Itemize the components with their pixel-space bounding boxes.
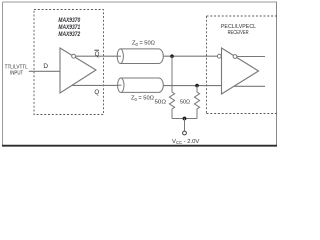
inversion bubble on driver complementary output <box>72 54 76 58</box>
wire: TTL input to driver D pin <box>29 70 60 72</box>
wire: driver Qbar output to top coax <box>76 55 118 57</box>
svg-text:Z0 = 50Ω: Z0 = 50Ω <box>131 96 154 102</box>
svg-text:D: D <box>43 63 48 70</box>
svg-text:Q: Q <box>95 51 100 58</box>
coax cable W1 body (top) <box>120 49 163 64</box>
svg-text:RECEIVER: RECEIVER <box>228 30 249 36</box>
svg-text:MAX9371: MAX9371 <box>58 24 80 31</box>
resistor R2 50ohm (terminates Q line) <box>194 86 199 119</box>
wire: node down to VCC-2.0V terminal <box>184 119 186 132</box>
receiver dashed box <box>207 16 278 114</box>
svg-text:50Ω: 50Ω <box>180 100 191 106</box>
wire: receiver complementary output <box>237 56 265 58</box>
coax cable W2 body (bottom) <box>121 78 164 92</box>
inversion bubble on receiver inverting input <box>217 54 221 58</box>
junction node on Qbar line <box>170 54 174 58</box>
resistor R1 50ohm (terminates Qbar line) <box>169 56 174 118</box>
wire: driver Q output to bottom coax <box>72 84 118 86</box>
svg-text:Q: Q <box>94 89 99 96</box>
wire: bottom coax to receiver noninverting input <box>163 85 221 87</box>
svg-text:50Ω: 50Ω <box>155 100 167 106</box>
receiver U2 (PECL/LVPECL receiver) <box>222 48 259 94</box>
wire: receiver true output <box>234 85 266 87</box>
wire: top coax to receiver inverting input <box>163 55 217 57</box>
inversion bubble on receiver complementary output <box>233 55 237 59</box>
coax cable W2 left end ellipse <box>118 78 124 92</box>
junction node at termination rail <box>183 117 187 121</box>
coax cable W1 left end ellipse <box>117 49 123 64</box>
junction node on Q line <box>195 84 199 88</box>
svg-text:VCC - 2.0V: VCC - 2.0V <box>172 139 199 145</box>
driver IC dashed box MAX9370/71/72 <box>34 10 104 115</box>
svg-text:MAX9372: MAX9372 <box>58 31 80 38</box>
svg-text:Z0 = 50Ω: Z0 = 50Ω <box>132 41 155 47</box>
outer frame (decorative) <box>3 1 278 3</box>
wire: joins R1 and R2 bottoms <box>172 118 197 120</box>
terminal VCC-2.0V (open circle) <box>183 131 187 135</box>
svg-text:INPUT: INPUT <box>10 70 24 76</box>
driver U1 (MAX937x buffer) <box>60 48 96 93</box>
